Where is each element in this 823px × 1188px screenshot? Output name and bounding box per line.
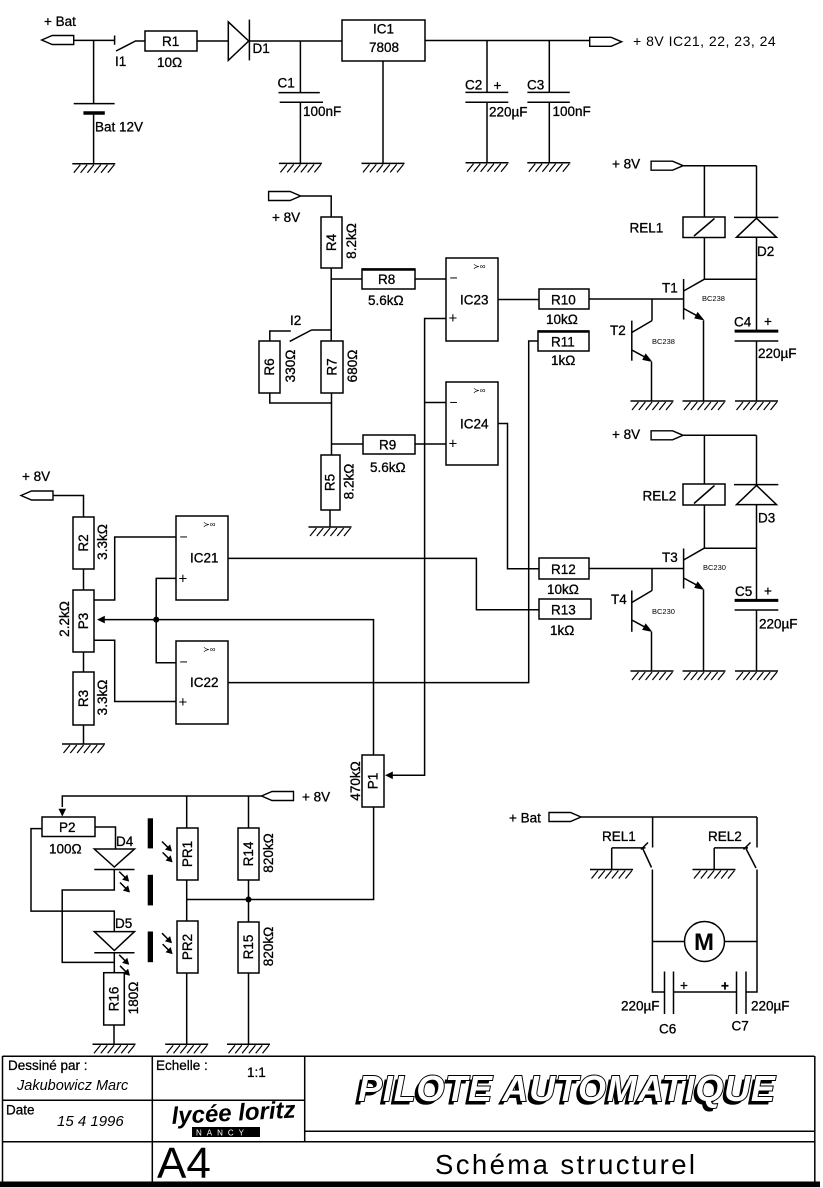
resistor R4	[321, 217, 359, 268]
svg-text:C7: C7	[732, 1019, 749, 1034]
wire R5 to ground	[329, 510, 331, 527]
wire IC24 minus input tap	[425, 402, 446, 404]
wire +Bat motor rail	[581, 816, 757, 818]
svg-text:220µF: 220µF	[751, 999, 790, 1014]
svg-text:PR2: PR2	[180, 934, 195, 960]
resistor R2	[73, 517, 110, 569]
wire P3 to R3	[83, 652, 85, 672]
photoresistor PR2	[162, 921, 198, 973]
resistor R6	[259, 341, 298, 393]
wire R16 to ground	[113, 1025, 115, 1044]
svg-text:REL1: REL1	[630, 221, 664, 236]
wire REL2 supply rail	[683, 434, 756, 436]
svg-text:1kΩ: 1kΩ	[550, 623, 574, 638]
wire T2 collector tie	[651, 299, 653, 321]
wire +8V output rail	[425, 40, 590, 42]
wire D5 cathode to R16	[113, 953, 115, 973]
wire R8 to IC23	[415, 278, 446, 280]
resistor R7	[321, 341, 360, 393]
svg-text:220µF: 220µF	[489, 105, 528, 120]
svg-text:BC230: BC230	[703, 563, 726, 572]
svg-text:+: +	[764, 584, 772, 599]
connector +8V divider supply	[21, 491, 53, 500]
op-amp IC21	[176, 516, 228, 600]
wire R14 supply drop	[248, 796, 250, 828]
ground C2	[466, 163, 509, 172]
svg-text:T1: T1	[662, 281, 678, 296]
connector +Bat motor supply	[549, 813, 581, 822]
wire REL2 contact to motor	[746, 870, 757, 993]
svg-text:+ 8V: + 8V	[612, 157, 640, 172]
wire P2 right to D4 anode	[95, 827, 116, 849]
svg-text:220µF: 220µF	[621, 999, 660, 1014]
svg-text:BC238: BC238	[652, 337, 675, 346]
svg-text:10Ω: 10Ω	[157, 55, 182, 70]
svg-text:A4: A4	[157, 1139, 211, 1188]
svg-text:≻∞: ≻∞	[203, 520, 216, 529]
resistor R3	[73, 672, 110, 725]
ground R5	[309, 527, 352, 536]
svg-text:REL1: REL1	[602, 829, 636, 844]
svg-text:Echelle :: Echelle :	[156, 1058, 208, 1073]
svg-text:M: M	[694, 929, 714, 956]
resistor R12	[539, 558, 589, 597]
svg-text:+: +	[179, 571, 188, 588]
ground T3	[683, 671, 726, 680]
svg-text:+: +	[449, 310, 458, 327]
svg-text:R1: R1	[162, 34, 179, 49]
svg-text:+: +	[721, 979, 729, 994]
motor M	[652, 922, 757, 962]
svg-text:R8: R8	[378, 272, 395, 287]
svg-text:R10: R10	[551, 293, 576, 308]
svg-text:P1: P1	[366, 773, 381, 790]
svg-text:I1: I1	[115, 54, 126, 69]
resistor R5	[321, 455, 357, 510]
wire PR1 to PR2	[186, 880, 188, 921]
LED D5	[94, 916, 134, 976]
svg-text:Dessiné par :: Dessiné par :	[8, 1058, 88, 1073]
svg-text:−: −	[180, 529, 188, 545]
wire R6 bottom to R7 bottom	[270, 393, 332, 403]
op-amp IC23	[446, 258, 498, 341]
ground C1	[279, 163, 322, 172]
junction node P3 wiper	[153, 617, 159, 623]
potentiometer P1	[348, 755, 384, 807]
ground REL2 contact	[693, 870, 736, 879]
wire T3 collector to D3	[704, 547, 756, 549]
wire node to IC22 minus	[156, 620, 176, 663]
transistor T3	[662, 548, 726, 671]
capacitor C2	[465, 78, 528, 163]
svg-text:100nF: 100nF	[553, 104, 591, 119]
resistor R8	[362, 269, 415, 308]
svg-text:5.6kΩ: 5.6kΩ	[370, 460, 406, 475]
svg-text:+ 8V: + 8V	[22, 469, 50, 484]
svg-text:+: +	[494, 78, 502, 93]
svg-text:C1: C1	[278, 76, 295, 91]
wire REL2 coil drop	[703, 435, 705, 484]
svg-text:P2: P2	[59, 820, 76, 835]
wire T1 collector to D2	[704, 278, 756, 280]
ground R3	[62, 744, 105, 753]
svg-text:R5: R5	[323, 474, 338, 491]
wire C6 to C7	[674, 991, 737, 993]
logo lycee loritz	[171, 1097, 296, 1138]
wire +Bat rail	[74, 39, 115, 41]
wire P3 bottom tap to IC22 plus	[94, 640, 176, 701]
diode D1	[228, 20, 269, 61]
svg-text:T2: T2	[610, 323, 626, 338]
junction node sensor divider	[246, 897, 252, 903]
svg-text:+ 8V: + 8V	[272, 210, 300, 225]
svg-text:I2: I2	[290, 313, 301, 328]
capacitor C4	[734, 314, 797, 401]
svg-text:IC21: IC21	[190, 551, 219, 566]
svg-text:820kΩ: 820kΩ	[261, 833, 276, 872]
wire R11 to IC22 output	[228, 341, 538, 683]
wire node to IC21 plus	[156, 578, 176, 619]
relay contact REL2	[708, 829, 756, 870]
title block frame	[0, 1056, 820, 1184]
svg-text:D3: D3	[758, 511, 775, 526]
svg-text:R15: R15	[241, 935, 256, 960]
svg-text:3.3kΩ: 3.3kΩ	[95, 680, 110, 716]
wire R9 to IC24	[415, 443, 446, 445]
svg-text:P3: P3	[76, 613, 91, 630]
relay coil REL1	[630, 217, 726, 238]
svg-text:R4: R4	[324, 233, 339, 251]
svg-text:+: +	[179, 694, 188, 711]
svg-text:C3: C3	[527, 78, 544, 93]
ground T1	[683, 401, 726, 410]
relay contact REL1	[602, 829, 652, 870]
battery Bat 12V	[74, 104, 143, 164]
transistor T4	[611, 591, 675, 672]
connector +8V sensor supply	[262, 792, 294, 801]
svg-text:8.2kΩ: 8.2kΩ	[344, 223, 359, 259]
wire D4 cathode loop	[62, 870, 114, 963]
wire REL2 contact feed	[756, 817, 758, 848]
wire R10 to T1 base	[589, 298, 684, 300]
svg-text:3.3kΩ: 3.3kΩ	[95, 524, 110, 560]
svg-text:R16: R16	[107, 987, 122, 1012]
svg-text:+: +	[764, 314, 772, 329]
wire C3 branch	[548, 41, 550, 93]
wire IC24 output to R12	[498, 424, 539, 569]
wire R15 to ground	[248, 973, 250, 1044]
connector +8V output	[590, 37, 622, 46]
svg-text:100Ω: 100Ω	[49, 842, 82, 857]
wire IC23 output	[498, 299, 539, 301]
ground R16	[93, 1044, 136, 1053]
wire D1 to IC1	[249, 40, 342, 42]
svg-text:Bat 12V: Bat 12V	[95, 120, 143, 135]
ground T4	[631, 671, 674, 680]
svg-text:220µF: 220µF	[758, 346, 797, 361]
resistor R16	[104, 973, 141, 1025]
wire R14 to R15	[248, 880, 250, 922]
svg-text:≻∞: ≻∞	[203, 645, 216, 654]
svg-text:+ 8V: + 8V	[612, 427, 640, 442]
svg-text:D2: D2	[757, 244, 774, 259]
shutter slit top	[148, 818, 153, 848]
arrow P3 wiper	[97, 616, 105, 624]
svg-text:R14: R14	[241, 841, 256, 866]
LED D4	[94, 834, 134, 893]
svg-text:+: +	[680, 978, 688, 993]
title PILOTE AUTOMATIQUE	[355, 1068, 776, 1113]
arrow into P2	[59, 809, 67, 817]
ground IC1	[362, 163, 405, 172]
svg-text:470kΩ: 470kΩ	[348, 761, 363, 800]
switch I2	[270, 313, 331, 341]
capacitor C6	[621, 972, 688, 1037]
wire IC23 plus input reference	[391, 319, 446, 776]
svg-text:R9: R9	[379, 438, 396, 453]
svg-text:D1: D1	[253, 41, 270, 56]
svg-text:+ 8V: + 8V	[302, 790, 330, 805]
svg-text:C5: C5	[735, 584, 752, 599]
resistor R11	[538, 331, 589, 368]
shutter slit bottom	[148, 932, 153, 963]
svg-text:10kΩ: 10kΩ	[546, 312, 578, 327]
wire REL1 coil drop	[703, 166, 705, 217]
wire R3 to ground	[83, 725, 85, 744]
wire P1 bottom to sensor node	[187, 807, 374, 900]
resistor R13	[539, 599, 591, 638]
svg-text:−: −	[450, 394, 458, 410]
svg-text:180Ω: 180Ω	[126, 982, 141, 1015]
svg-text:+ Bat: + Bat	[509, 811, 541, 826]
svg-text:IC23: IC23	[460, 293, 489, 308]
svg-text:Jakubowicz Marc: Jakubowicz Marc	[16, 1078, 129, 1094]
svg-text:NANCY: NANCY	[196, 1129, 249, 1138]
svg-text:BC238: BC238	[702, 294, 725, 303]
wire R2 to P3	[83, 569, 85, 590]
connector +8V REL1	[651, 161, 683, 170]
svg-text:+ Bat: + Bat	[44, 14, 76, 29]
svg-text:D5: D5	[115, 916, 132, 931]
resistor R9	[363, 435, 415, 475]
capacitor C3	[527, 78, 591, 163]
wire PR1 supply drop	[186, 796, 188, 828]
svg-text:C6: C6	[659, 1022, 676, 1037]
diode D3	[734, 435, 778, 600]
svg-text:R7: R7	[325, 358, 340, 375]
capacitor C5	[735, 584, 798, 672]
svg-text:2.2kΩ: 2.2kΩ	[57, 601, 72, 637]
wire sensor supply rail	[62, 796, 261, 807]
svg-text:10kΩ: 10kΩ	[547, 582, 579, 597]
svg-text:1kΩ: 1kΩ	[551, 353, 575, 368]
svg-text:D4: D4	[116, 834, 134, 849]
capacitor C1	[278, 76, 342, 164]
wire C1 branch	[299, 41, 301, 93]
wire R13 to IC21 output	[228, 558, 539, 609]
ground C3	[527, 163, 570, 172]
shutter slit middle	[148, 875, 153, 906]
svg-text:5.6kΩ: 5.6kΩ	[368, 293, 404, 308]
connector +Bat input	[42, 36, 74, 45]
wire P3 wiper node	[103, 620, 374, 755]
capacitor C7	[721, 972, 790, 1034]
svg-text:≻∞: ≻∞	[473, 386, 486, 395]
ground PR2	[165, 1044, 208, 1053]
svg-text:C4: C4	[734, 315, 752, 330]
wire PR2 to ground	[186, 973, 188, 1044]
svg-text:R11: R11	[551, 335, 575, 350]
diode D2	[734, 166, 778, 331]
svg-text:C2: C2	[465, 78, 482, 93]
ground T2	[631, 401, 674, 410]
svg-text:≻∞: ≻∞	[473, 262, 486, 271]
svg-text:REL2: REL2	[708, 829, 742, 844]
potentiometer P2	[42, 817, 95, 857]
svg-text:R13: R13	[551, 603, 576, 618]
connector +8V comparator supply	[269, 192, 301, 201]
wire REL2 to T3 collector	[703, 505, 705, 548]
ground battery	[72, 164, 115, 173]
ground REL1 contact	[590, 870, 633, 879]
svg-text:100nF: 100nF	[303, 104, 341, 119]
relay coil REL2	[643, 484, 726, 505]
transistor T1	[662, 279, 725, 401]
resistor R10	[539, 289, 589, 327]
wire R4 to R7	[330, 268, 332, 341]
ground C4	[735, 401, 778, 410]
svg-text:PILOTE AUTOMATIQUE: PILOTE AUTOMATIQUE	[358, 1068, 776, 1109]
potentiometer P3	[57, 590, 94, 652]
svg-text:+: +	[449, 436, 458, 453]
svg-text:IC22: IC22	[190, 675, 219, 690]
svg-text:+ 8V IC21, 22, 23, 24: + 8V IC21, 22, 23, 24	[633, 33, 776, 49]
wire REL1 contact feed	[652, 817, 654, 848]
transistor T2	[610, 321, 675, 401]
svg-text:REL2: REL2	[643, 489, 677, 504]
svg-text:T3: T3	[662, 550, 678, 565]
resistor R15	[238, 922, 276, 973]
connector +8V REL2	[651, 431, 683, 440]
wire P3 top tap to IC21 minus	[94, 537, 176, 600]
wire +8V to R2	[53, 496, 84, 518]
wire C2 branch	[486, 41, 488, 93]
wire REL1 supply rail	[683, 165, 756, 167]
wire battery drop	[93, 40, 95, 103]
svg-text:680Ω: 680Ω	[345, 350, 360, 383]
svg-text:330Ω: 330Ω	[283, 350, 298, 383]
ground R15	[227, 1044, 270, 1053]
svg-text:Schéma structurel: Schéma structurel	[435, 1149, 697, 1180]
arrow P1 wiper	[385, 772, 393, 780]
wire T4 collector tie	[651, 569, 653, 591]
wire REL1 to T1 collector	[703, 238, 705, 280]
svg-text:7808: 7808	[369, 40, 399, 55]
wire R1 to D1	[197, 40, 228, 42]
op-amp IC22	[176, 641, 228, 724]
svg-text:Date: Date	[6, 1103, 35, 1118]
svg-text:220µF: 220µF	[759, 617, 798, 632]
svg-text:IC1: IC1	[373, 22, 394, 37]
wire R8 feed	[331, 278, 362, 280]
svg-text:R2: R2	[76, 534, 91, 551]
svg-text:T4: T4	[611, 592, 627, 607]
wire R9 feed	[332, 443, 364, 445]
wire P2 left to D5 anode	[31, 829, 114, 932]
wire IC1 ground lead	[382, 61, 384, 163]
svg-text:R6: R6	[262, 358, 277, 375]
wire R12 to T3 base	[589, 568, 684, 570]
svg-text:1:1: 1:1	[247, 1065, 266, 1080]
switch I1	[115, 36, 145, 70]
ground C5	[735, 671, 778, 680]
svg-text:15 4 1996: 15 4 1996	[57, 1113, 124, 1130]
wire REL1 contact to motor	[652, 870, 664, 993]
resistor R14	[238, 828, 276, 880]
svg-text:R3: R3	[76, 690, 91, 707]
wire +8V to R4	[301, 196, 332, 217]
svg-text:820kΩ: 820kΩ	[261, 927, 276, 966]
resistor R1	[145, 31, 197, 70]
svg-text:8.2kΩ: 8.2kΩ	[342, 464, 357, 500]
svg-text:R12: R12	[551, 562, 576, 577]
op-amp IC24	[446, 382, 498, 465]
svg-text:PR1: PR1	[180, 841, 195, 867]
photoresistor PR1	[162, 828, 198, 880]
svg-text:−: −	[180, 654, 188, 670]
svg-text:IC24: IC24	[460, 417, 489, 432]
regulator IC1	[342, 20, 425, 61]
svg-text:−: −	[450, 270, 458, 286]
svg-text:BC230: BC230	[652, 607, 675, 616]
wire R7 to R5	[331, 393, 333, 455]
